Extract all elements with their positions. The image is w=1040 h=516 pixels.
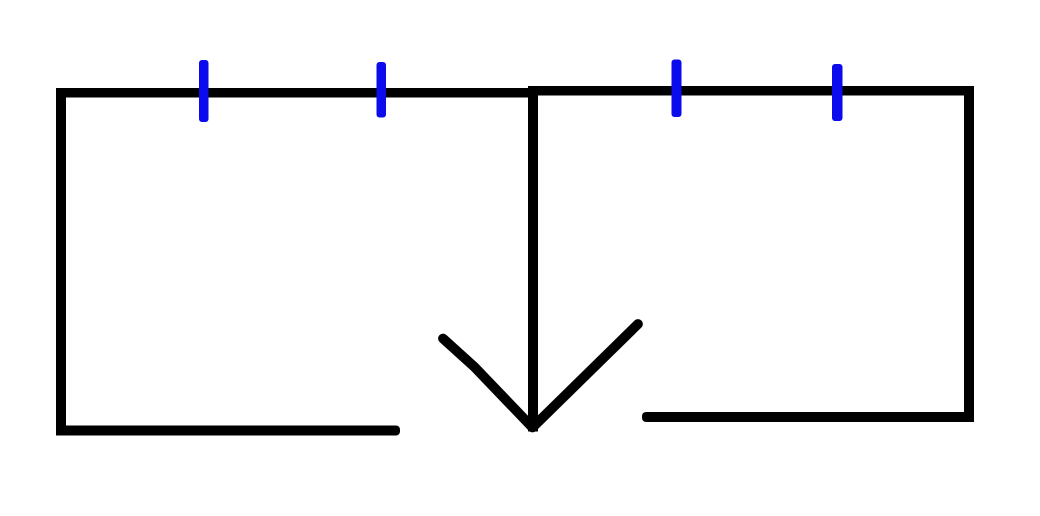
wire: left loop top (node A to junction) [56, 88, 538, 98]
arrow head left stroke [443, 339, 532, 428]
wire: right loop bottom (open left end) [642, 412, 974, 422]
cell tick 3 (blue) [672, 60, 682, 118]
cell tick 4 (blue) [832, 64, 843, 121]
wire: center vertical drop (junction to arrow tip) [528, 86, 538, 432]
wire: right loop right vertical [964, 86, 974, 422]
cell tick 1 (blue) [199, 60, 209, 122]
arrow head right stroke [533, 324, 639, 428]
wire: left loop bottom (open right end) [56, 426, 400, 436]
wire: right loop top (junction to node B) [532, 86, 974, 96]
cell tick 2 (blue) [377, 62, 387, 118]
wire: left loop left vertical [56, 88, 66, 436]
